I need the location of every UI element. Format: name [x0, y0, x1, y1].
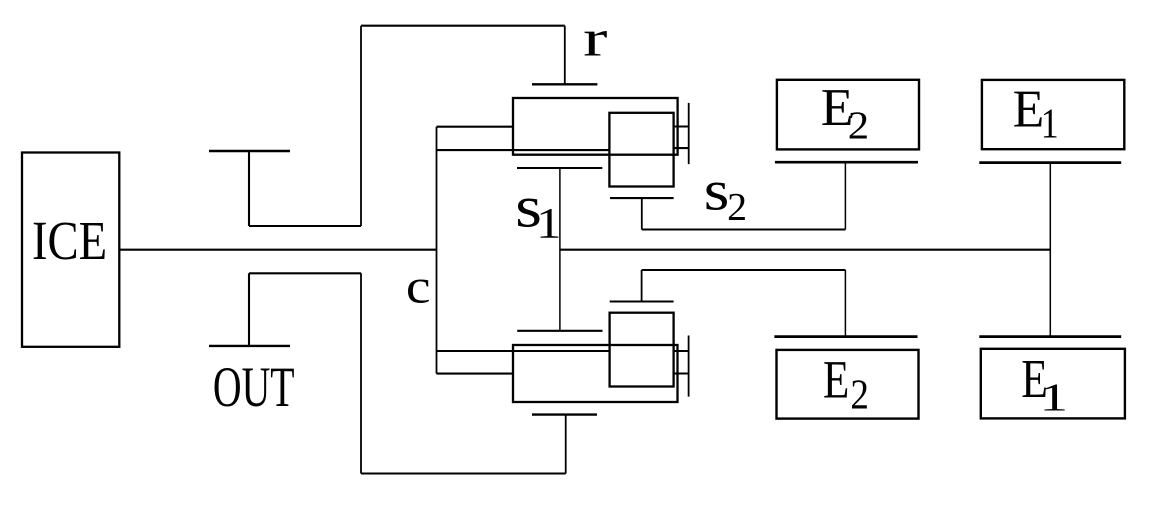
svg-text:1: 1 [536, 200, 561, 248]
svg-text:r: r [583, 10, 607, 67]
svg-text:s: s [704, 159, 730, 222]
svg-text:1: 1 [1041, 101, 1059, 147]
svg-text:2: 2 [850, 371, 869, 418]
svg-text:2: 2 [727, 185, 747, 229]
svg-text:ICE: ICE [32, 212, 107, 272]
svg-text:1: 1 [1039, 375, 1068, 419]
svg-text:2: 2 [848, 104, 869, 147]
svg-text:E: E [823, 350, 849, 409]
svg-text:E: E [1013, 81, 1044, 139]
svg-text:c: c [406, 260, 431, 314]
svg-text:OUT: OUT [213, 355, 295, 419]
